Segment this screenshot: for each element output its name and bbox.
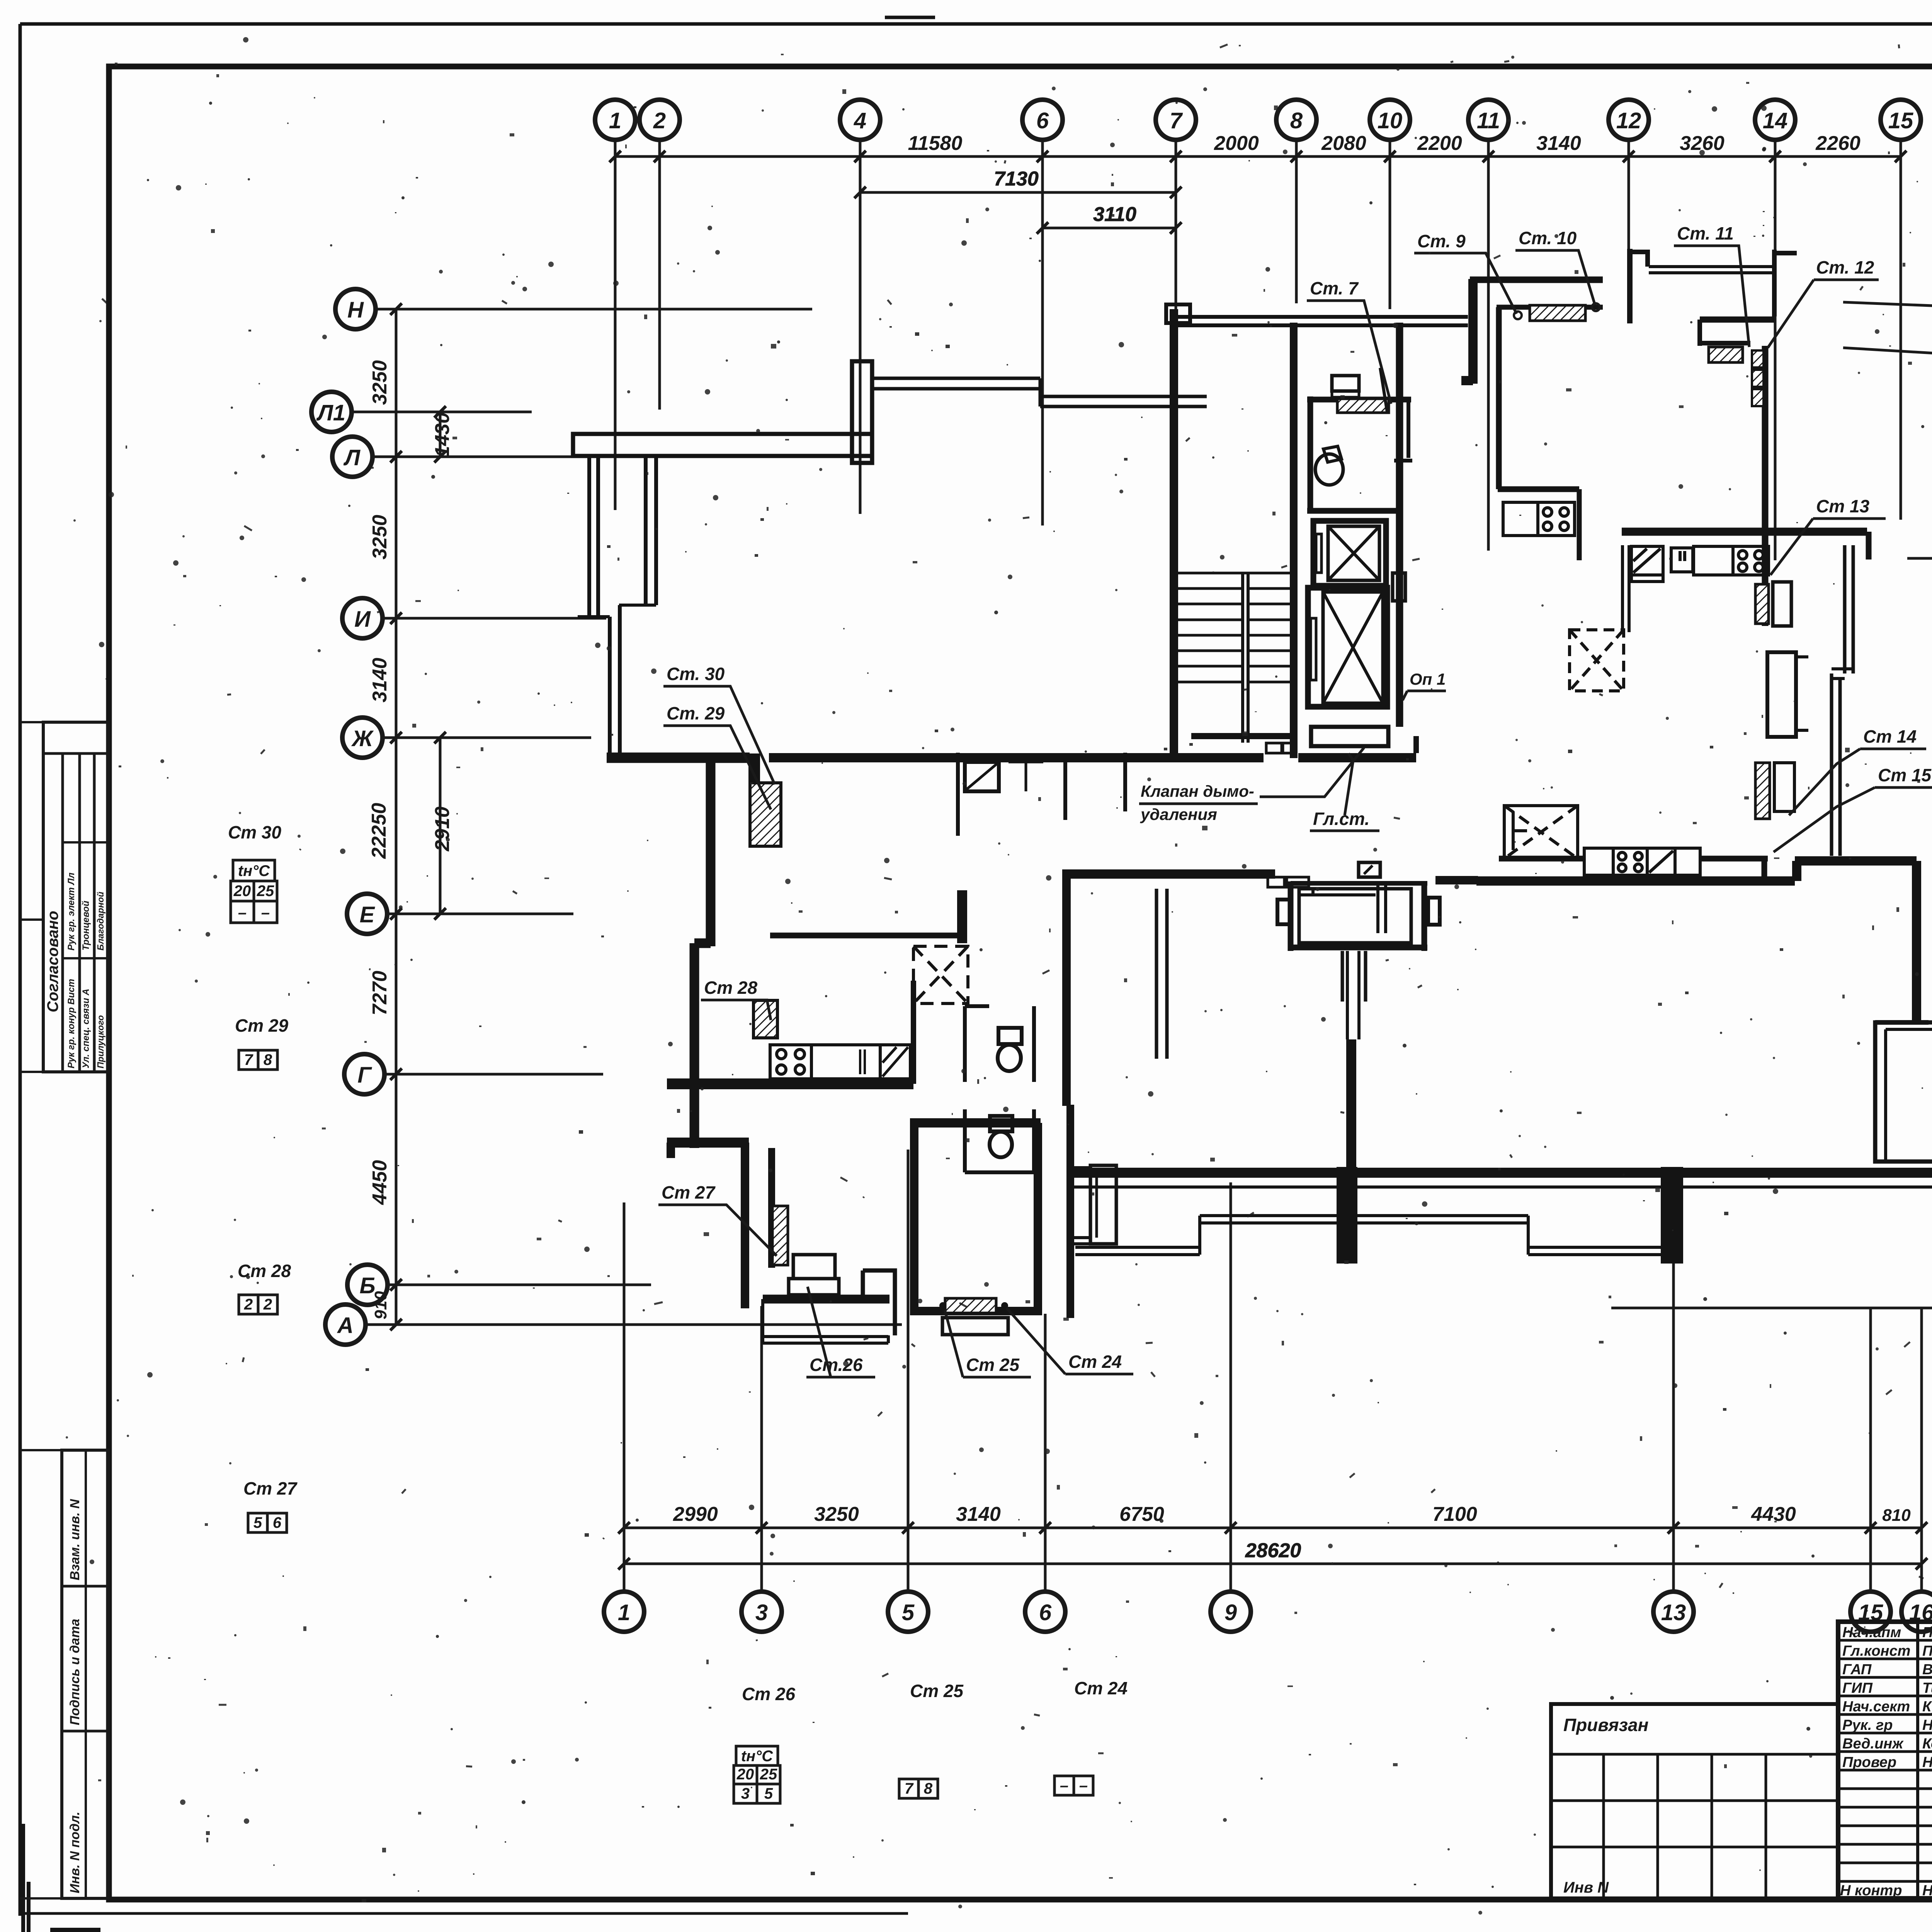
svg-text:2: 2 [653,108,666,133]
stair stringer [1243,573,1248,743]
WC room 2 [965,1109,1034,1172]
entrance vestibule inner box [1299,889,1411,943]
svg-text:Оп 1: Оп 1 [1410,670,1446,688]
svg-text:2080: 2080 [1321,132,1366,155]
outer page border [20,22,1932,26]
svg-text:Н: Н [347,298,364,323]
wall: axis-4 pilaster [852,361,872,463]
svg-text:5: 5 [253,1514,262,1531]
svg-text:Тимофеев: Тимофеев [1922,1680,1932,1696]
svg-text:Купырев: Купырев [1922,1699,1932,1715]
radiator Ст.13 hatched [1755,584,1769,624]
stair treads [1178,573,1294,682]
svg-text:Ст 27: Ст 27 [243,1478,298,1498]
wall: right wall of center-bottom apartment [1066,1105,1074,1318]
svg-text:Ст. 30: Ст. 30 [667,664,725,684]
svg-text:Клапан дымо-: Клапан дымо- [1141,782,1254,800]
top axis grid lines [614,140,617,510]
svg-text:Ул. спец. связи А: Ул. спец. связи А [81,989,91,1068]
WC room 1 [965,1006,1034,1082]
svg-text:7: 7 [1170,108,1183,133]
bottom axis circles [604,1592,1932,1632]
vestibule inner divider [1378,886,1386,933]
third top chain 3110 [1043,227,1176,230]
svg-text:Ст 26: Ст 26 [742,1684,795,1704]
svg-text:8: 8 [1290,108,1303,133]
В-axis bottom wall [1073,1168,1932,1178]
bottom-left parapet [763,1299,888,1343]
Е wall with step [1476,876,1795,886]
svg-text:28620: 28620 [1245,1539,1301,1562]
svg-text:8: 8 [924,1780,933,1797]
kitchen stove 4-burner [770,1045,811,1079]
svg-text:7130: 7130 [994,168,1039,190]
svg-text:7: 7 [905,1780,914,1797]
center pier [1337,1167,1357,1264]
svg-text:8: 8 [264,1051,272,1068]
svg-text:2000: 2000 [1214,132,1259,155]
svg-text:22250: 22250 [368,803,390,859]
north wall band + radiators Ст.9/10 [1470,277,1603,283]
wall lower double [1832,673,1840,856]
radiator Ст.30 hatched [750,783,781,846]
svg-text:Гл.ст.: Гл.ст. [1313,809,1370,829]
svg-text:–: – [1079,1777,1088,1794]
elevator shaft 1 [1313,521,1386,586]
corridor door leaves [1266,743,1282,753]
svg-text:910: 910 [371,1291,390,1320]
wall: Л-axis band top-left [573,434,872,456]
svg-text:Коломоец: Коломоец [1922,1736,1932,1752]
bathroom block top (И-Ж) [958,753,1125,836]
svg-text:7: 7 [244,1051,253,1068]
wall between lobby and apartment [1461,279,1473,384]
svg-text:Ст 14: Ст 14 [1863,726,1917,747]
long interior wall + vent boxes [1762,346,1769,626]
svg-text:2990: 2990 [673,1503,718,1526]
svg-text:Ст. 9: Ст. 9 [1417,231,1466,251]
svg-text:–: – [1060,1777,1068,1794]
svg-text:7270: 7270 [369,971,391,1015]
corridor top wall of core [1171,317,1468,325]
right bay box [1875,1020,1929,1025]
corridor door leaves lower [1268,877,1284,887]
svg-text:Ст 27: Ст 27 [662,1182,716,1202]
svg-text:Ст 13: Ст 13 [1816,496,1869,516]
wall: left exterior wall of upper-left apartment (double lines) [589,458,598,616]
attachment box left of title [1551,1704,1838,1898]
svg-text:3110: 3110 [1093,203,1136,226]
svg-text:Ст 30: Ст 30 [228,822,281,842]
svg-text:6: 6 [1039,1600,1052,1625]
center-bottom bay right [1073,1168,1090,1244]
svg-text:–: – [261,904,270,921]
svg-text:Прилуцкого: Прилуцкого [95,1015,105,1068]
svg-text:Ст 25: Ст 25 [910,1681,964,1701]
К-axis kitchen wall [1622,528,1867,536]
left axis circles [311,289,388,1345]
radiator Ст.25/24 hatched [945,1298,996,1313]
svg-text:Согласовано: Согласовано [44,911,61,1012]
elevator shaft 2 [1308,588,1387,707]
wall: kitchen wall bottom-left apartment [667,1078,913,1089]
elevator machine room [1311,727,1388,746]
svg-text:14: 14 [1763,108,1788,133]
svg-text:Инв. N подл.: Инв. N подл. [68,1811,82,1893]
svg-text:Ж: Ж [351,726,374,751]
kitchen sink diagonal [880,1045,910,1079]
wall: lower left wall to Ж [610,605,620,754]
svg-text:3250: 3250 [369,360,391,405]
vent shaft dashed X box [913,946,968,1003]
svg-text:5: 5 [902,1600,915,1625]
Е wall segment right of vestibule [1435,876,1478,884]
wall: inner niche wall [646,458,656,605]
svg-text:12: 12 [1616,108,1641,133]
svg-text:Ст 24: Ст 24 [1074,1678,1128,1698]
corridor lower wall [1062,869,1275,879]
wall: partition above kitchen [770,933,961,939]
stair landing bottom wall [1191,733,1296,739]
svg-text:Польшин: Польшин [1922,1643,1932,1659]
svg-text:Е: Е [360,902,376,927]
pier next to radiator [1773,582,1791,626]
svg-text:3140: 3140 [1536,132,1581,155]
vent shaft dashed X upper [1570,630,1624,691]
bottom-left apartment: left wall [741,1143,749,1308]
svg-text:Провер: Провер [1842,1754,1896,1770]
svg-text:810: 810 [1882,1506,1911,1525]
svg-text:Ст. 12: Ст. 12 [1816,257,1874,277]
door pier middle [1767,652,1796,737]
entry door mark [1359,862,1380,877]
stair right wall [1290,323,1298,758]
svg-text:Гл.конст: Гл.конст [1842,1643,1910,1659]
svg-text:2: 2 [263,1296,272,1313]
svg-text:4450: 4450 [369,1160,391,1205]
svg-text:3: 3 [755,1600,768,1625]
svg-text:Ст 15: Ст 15 [1878,765,1932,785]
svg-text:6: 6 [1036,108,1049,133]
svg-text:6: 6 [273,1514,282,1531]
svg-text:Ст. 7: Ст. 7 [1310,278,1359,298]
svg-text:Благодарной: Благодарной [95,892,105,951]
svg-text:ГАП: ГАП [1842,1662,1872,1678]
balcony parapet lines [1200,1216,1528,1223]
svg-text:Ст 28: Ст 28 [238,1261,291,1281]
left margin stamp: inventory cells (bottom) [62,1450,108,1898]
svg-text:Рук. гр: Рук. гр [1842,1717,1893,1733]
svg-text:4430: 4430 [1751,1503,1796,1526]
bottom-left bay [863,1270,895,1335]
left exterior below corridor [1062,874,1071,1106]
bathroom box with WC [1308,396,1313,511]
apartment left wall [1496,307,1502,489]
svg-text:tн°C: tн°C [238,862,270,879]
kitchen counter [811,1045,880,1079]
left axis row lines [376,308,812,311]
wall: vertical double near riser [1156,889,1167,1059]
left bay walls [1627,249,1633,323]
balcony door symbol bottom-left [793,1255,835,1279]
top axis circles [595,100,1921,140]
right edge wall down [1912,861,1921,1022]
wall: kitchen bottom + pier [667,1138,749,1148]
axis-13 pier [1661,1167,1683,1264]
svg-text:Н контр: Н контр [1840,1883,1902,1899]
svg-text:Г: Г [357,1063,372,1088]
bottom-left apartment: inner wall [768,1148,775,1268]
toilet [1315,454,1343,485]
svg-text:Нач.сект: Нач.сект [1842,1699,1910,1715]
core right wall [1396,323,1403,727]
kitchen fixtures right [1622,545,1769,632]
wall: Ж corridor wall left segment [607,753,750,763]
bottom-left apartment: bottom wall [763,1295,889,1304]
svg-text:Подпись и дата: Подпись и дата [68,1619,82,1725]
top wall + radiator Ст.11 [1700,316,1774,323]
svg-text:2910: 2910 [431,806,454,852]
svg-text:25: 25 [760,1766,777,1783]
svg-text:Ст.26: Ст.26 [810,1355,863,1375]
svg-text:tн°C: tн°C [741,1748,773,1765]
svg-text:Николаенко: Николаенко [1922,1883,1932,1899]
svg-text:Взам. инв. N: Взам. инв. N [68,1498,82,1580]
svg-text:Николаенко: Николаенко [1922,1717,1932,1733]
svg-text:Тронцевой: Тронцевой [81,901,91,951]
top dimension chain [615,155,1901,158]
personnel table frame [1838,1622,1932,1898]
left dimension chain [395,309,398,1325]
washroom dashed X [1504,806,1578,859]
central wall below vestibule [1342,951,1366,1002]
svg-text:удаления: удаления [1140,805,1217,823]
svg-text:Ст 29: Ст 29 [235,1015,288,1036]
page corner streak bottom-left [22,1913,25,1932]
svg-text:Ст. 29: Ст. 29 [667,703,725,723]
svg-text:20: 20 [736,1766,754,1783]
svg-text:Рук гр. элект Лл: Рук гр. элект Лл [66,872,77,951]
vestibule side stubs [1277,900,1290,924]
svg-text:9: 9 [1225,1600,1237,1625]
svg-text:1: 1 [609,108,621,133]
svg-text:2200: 2200 [1417,132,1462,155]
svg-text:5: 5 [764,1785,773,1802]
walls around washroom / kitchen row [1499,856,1584,862]
fold tick marks on left margin [20,721,43,723]
svg-text:10: 10 [1378,108,1403,133]
svg-text:3250: 3250 [814,1503,859,1526]
svg-text:1: 1 [618,1600,630,1625]
core right notch [1393,573,1405,601]
wall: left wall middle-left apartment [694,763,711,1148]
corridor bottom wall right part with door gap [769,753,1416,762]
svg-text:А: А [337,1313,354,1338]
svg-text:И: И [354,607,371,632]
wall: jog at И axis [619,604,656,607]
radiator Ст.14/15 vertical [1755,763,1770,819]
svg-text:11: 11 [1477,108,1500,133]
svg-text:Рук гр. конур Вист: Рук гр. конур Вист [66,979,77,1068]
svg-text:7100: 7100 [1432,1503,1477,1526]
svg-text:Инв N: Инв N [1563,1879,1609,1896]
svg-text:Ст. 11: Ст. 11 [1677,223,1734,243]
svg-text:1430: 1430 [431,412,454,457]
svg-text:3: 3 [741,1785,750,1802]
wall jog [1832,669,1853,679]
center-bottom apartment walls [910,1123,918,1315]
svg-text:2260: 2260 [1815,132,1861,155]
svg-text:Л: Л [343,445,361,470]
svg-text:13: 13 [1661,1600,1686,1625]
svg-text:Николаенко: Николаенко [1922,1754,1932,1770]
svg-text:Ст 24: Ст 24 [1068,1352,1122,1372]
radiator Ст.27 hatched [772,1206,788,1265]
wall: partition right of kitchen [911,981,916,1084]
svg-text:–: – [238,904,247,921]
svg-text:Вильдергауз: Вильдергауз [1922,1662,1932,1678]
svg-text:Л1: Л1 [316,400,345,425]
balcony rail center-bottom [942,1318,1008,1335]
bottom axis grid lines [623,1202,626,1592]
left margin stamp: approval table (top) [43,722,108,1072]
smoke valve note [1140,782,1254,823]
axis-7 top pilaster [1166,304,1190,323]
second top chain 7130 [860,191,1176,194]
svg-text:11580: 11580 [908,132,963,155]
entrance vestibule outer [1291,881,1427,951]
svg-text:25: 25 [257,883,274,900]
svg-text:3140: 3140 [956,1503,1001,1526]
svg-text:4: 4 [854,108,866,133]
svg-text:Ст 28: Ст 28 [704,978,757,998]
svg-text:3140: 3140 [369,658,391,702]
svg-text:3250: 3250 [369,515,391,560]
right axis row lines [1843,302,1932,311]
kitchen top-center [1498,486,1579,492]
svg-text:Привязан: Привязан [1563,1715,1648,1735]
bottom dimension chains [624,1527,1922,1529]
svg-text:Ст. 10: Ст. 10 [1519,228,1577,248]
stair left wall [1170,309,1178,758]
svg-text:2: 2 [244,1296,253,1313]
svg-text:15: 15 [1888,108,1913,133]
svg-text:Полотнюев: Полотнюев [1922,1624,1932,1641]
wall right of kitchen: upper double [1845,545,1853,673]
svg-text:ГИП: ГИП [1842,1680,1873,1696]
svg-text:20: 20 [233,883,251,900]
svg-text:Ст 25: Ст 25 [966,1355,1020,1375]
svg-text:Вед.инж: Вед.инж [1842,1736,1904,1752]
svg-text:6750: 6750 [1119,1503,1164,1526]
wall: partition down from Ж wall [748,753,760,847]
wall: window band top-left apartment [872,378,1207,406]
radiator Ст.28 small [753,1000,777,1038]
